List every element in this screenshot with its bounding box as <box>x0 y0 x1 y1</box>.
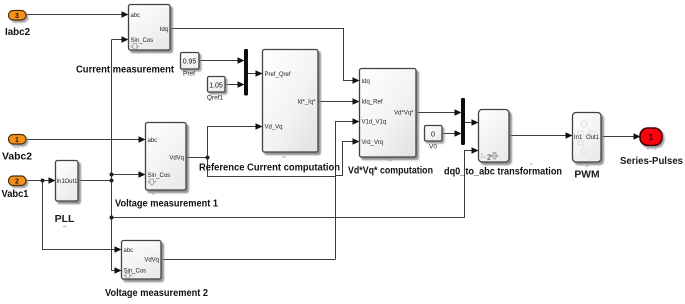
svg-text:Sin_Cos: Sin_Cos <box>148 173 171 179</box>
wire jog to Vrd_Vrq <box>336 138 360 175</box>
svg-text:Vabc1: Vabc1 <box>2 189 30 200</box>
wire Reference Id*_Iq* to Idq_Ref <box>318 98 360 104</box>
svg-text:Out1: Out1 <box>586 135 600 141</box>
wire junction up to Reference Vd_Vq <box>208 123 263 157</box>
svg-text:Out1: Out1 <box>64 179 78 185</box>
svg-text:abc: abc <box>131 13 141 19</box>
svg-text:PWM: PWM <box>574 170 599 181</box>
wire Sin_Cos vertical trunk <box>111 40 113 271</box>
block Voltage measurement 2 <box>105 241 209 300</box>
wire VdVq from Voltage measurement 1 to junction <box>186 157 208 159</box>
wire Sin_Cos to Current measurement <box>112 36 129 42</box>
svg-text:dq0_to_abc transformation: dq0_to_abc transformation <box>444 167 562 178</box>
svg-text:Idq: Idq <box>160 27 168 33</box>
svg-text:2: 2 <box>15 179 19 186</box>
svg-text:V0: V0 <box>429 144 437 151</box>
junction node Sin_Cos to Voltage measurement 1 <box>110 173 114 177</box>
wire inport2 to PLL In1 <box>26 177 56 183</box>
wire Idq from Current measurement to Vd*Vq* computation <box>170 29 360 84</box>
junction node PLL output <box>110 179 114 183</box>
svg-text:3: 3 <box>15 13 19 20</box>
svg-text:Vrd_Vrq: Vrd_Vrq <box>362 140 384 146</box>
mux M2 <box>461 98 465 145</box>
svg-text:abc: abc <box>124 248 134 254</box>
svg-text:abc: abc <box>148 138 158 144</box>
svg-text:Vd*Vq*: Vd*Vq* <box>394 111 414 117</box>
svg-text:Vd*Vq* computation: Vd*Vq* computation <box>348 166 433 177</box>
svg-text:0: 0 <box>431 132 435 139</box>
svg-text:Vd_Vq: Vd_Vq <box>265 125 283 131</box>
svg-text:Reference Current computation: Reference Current computation <box>199 163 340 174</box>
wire constant 1.05 to mux1 <box>225 81 245 87</box>
svg-text:Vabc2: Vabc2 <box>2 152 33 163</box>
inport 3 Iabc2 <box>5 11 31 39</box>
svg-text:0.95: 0.95 <box>183 59 197 66</box>
wire PWM Out1 to Series-Pulses <box>601 133 641 139</box>
wire PLL Out1 to Sin_Cos net <box>78 180 112 182</box>
svg-text:V1d_V1q: V1d_V1q <box>362 120 387 126</box>
wire dq0_to_abc to PWM In1 <box>509 132 573 138</box>
svg-text:Voltage measurement 1: Voltage measurement 1 <box>115 199 219 210</box>
constant 1.05 Qref1 <box>207 77 225 102</box>
svg-text:Current measurement: Current measurement <box>76 65 175 76</box>
svg-text:Qref1: Qref1 <box>207 95 224 102</box>
wire inport3 to Current measurement abc <box>26 11 129 17</box>
annotation tiny marks <box>14 147 589 227</box>
wire Sin_Cos to dq0_to_abc second input <box>112 147 479 217</box>
wire mux1 to Reference Pref_Qref <box>248 70 263 76</box>
junction node Vabc1 branch <box>41 179 45 183</box>
block Vd*Vq* computation <box>348 69 433 177</box>
wire Vd*Vq* output to mux2 <box>416 109 462 115</box>
svg-text:Pref: Pref <box>183 71 195 78</box>
svg-text:Pref_Qref: Pref_Qref <box>265 72 291 78</box>
svg-text:In1: In1 <box>574 135 583 141</box>
inport 1 Vabc2 <box>2 135 33 163</box>
junction node VdVq measurement 1 <box>206 156 210 160</box>
wire Sin_Cos to Voltage measurement 1 <box>112 171 146 177</box>
svg-text:PLL: PLL <box>55 213 75 225</box>
svg-text:Voltage measurement 2: Voltage measurement 2 <box>105 288 209 299</box>
svg-text:Series-Pulses: Series-Pulses <box>620 156 683 167</box>
svg-text:VdVq: VdVq <box>144 258 159 264</box>
block Voltage measurement 1 <box>115 123 219 210</box>
wire vertical to V1d_V1q <box>336 118 360 259</box>
svg-text:Idq: Idq <box>362 79 370 85</box>
wire mux2 to dq0_to_abc input <box>465 119 479 125</box>
svg-text:VdVq: VdVq <box>169 156 184 162</box>
junction node Sin_Cos y217 branch <box>110 216 114 220</box>
svg-text:1.05: 1.05 <box>209 83 223 90</box>
inport 2 Vabc1 <box>2 176 30 200</box>
outport 1 Series-Pulses <box>620 128 683 167</box>
wire constant V0 to mux2 <box>442 130 462 136</box>
wire Sin_Cos to Voltage measurement 2 <box>112 267 122 273</box>
svg-text:1: 1 <box>15 137 19 144</box>
svg-text:Idq_Ref: Idq_Ref <box>362 100 383 106</box>
wire VdVq from Voltage measurement 2 <box>161 259 336 261</box>
block Reference Current computation <box>199 50 340 174</box>
constant 0.95 Pref <box>181 53 200 78</box>
mux M1 <box>244 49 248 96</box>
svg-text:Id*_Iq*: Id*_Iq* <box>297 100 316 106</box>
block PLL <box>55 161 79 226</box>
wire junction down and right below Reference block <box>208 158 336 177</box>
constant 0 V0 <box>425 126 443 151</box>
block PWM <box>573 113 602 181</box>
block Current measurement <box>76 5 175 76</box>
wire inport1 to Voltage measurement 1 abc <box>26 136 146 142</box>
wire branch Vabc1 down to Voltage measurement 2 abc <box>43 181 122 253</box>
svg-text:Iabc2: Iabc2 <box>5 27 31 38</box>
svg-text:1: 1 <box>649 132 654 142</box>
block dq0_to_abc transformation <box>444 110 562 178</box>
svg-text:2: 2 <box>487 153 491 162</box>
wire constant 0.95 to mux1 <box>199 57 245 63</box>
